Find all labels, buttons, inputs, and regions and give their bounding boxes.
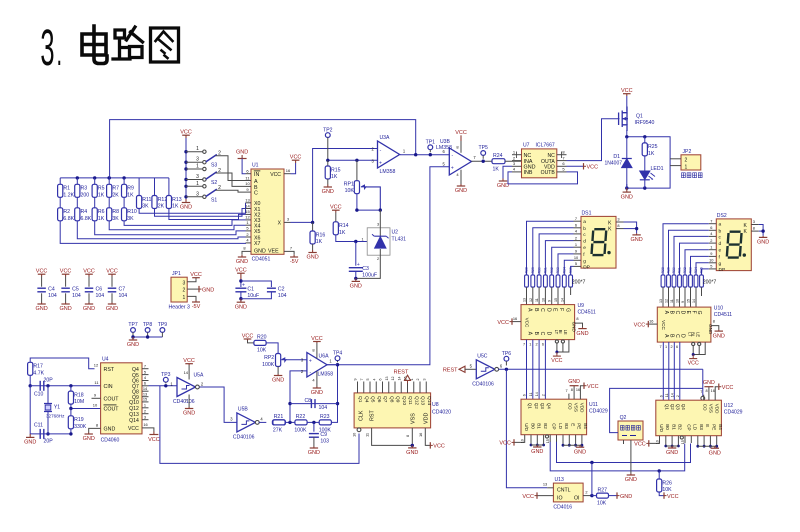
shunt regulator U2 TL431 — [367, 228, 390, 255]
svg-text:R13: R13 — [172, 197, 182, 203]
power VCC U12 UD — [648, 440, 650, 446]
pin 9 U4 COUT — [92, 397, 101, 399]
svg-text:8: 8 — [713, 319, 715, 324]
pin 3 DS1 — [616, 221, 624, 223]
wire Q2 signal — [610, 388, 703, 432]
svg-text:R34: R34 — [694, 267, 698, 273]
wire REST to U5C — [465, 368, 477, 370]
pin 5 DS2 — [709, 268, 717, 270]
svg-text:GND: GND — [406, 450, 418, 456]
transistor Q1 IRF9540 — [619, 107, 628, 132]
svg-text:104: 104 — [48, 293, 57, 299]
svg-text:8: 8 — [576, 316, 578, 321]
svg-text:LM358: LM358 — [380, 169, 396, 175]
svg-text:13: 13 — [659, 299, 663, 303]
svg-text:U4: U4 — [102, 356, 109, 362]
svg-text:R27: R27 — [598, 487, 608, 493]
ground GND C6 — [88, 303, 90, 305]
ground GND C1 — [240, 299, 242, 303]
svg-text:R20: R20 — [257, 335, 267, 341]
resistor R25 — [644, 137, 646, 143]
wire DS2 staircase segment 6 — [696, 263, 709, 275]
wire DS1 staircase segment 1 — [533, 228, 574, 275]
pin 16 U8 VDD — [425, 428, 430, 446]
svg-text:GND: GND — [620, 494, 632, 500]
wire DS2 staircase segment 2 — [674, 236, 709, 275]
svg-text:104: 104 — [119, 293, 128, 299]
resistor R15 — [327, 160, 329, 166]
display DS1 — [581, 216, 616, 268]
svg-text:2: 2 — [416, 379, 420, 381]
pin 1 DS2 — [709, 249, 717, 251]
pin 16 U9 VCC — [513, 321, 522, 323]
svg-text:GND: GND — [308, 450, 320, 456]
wire Q1 gate stub — [618, 118, 620, 120]
svg-text:1: 1 — [144, 403, 146, 408]
resistor R11 — [138, 178, 140, 196]
svg-text:200*7: 200*7 — [703, 280, 717, 286]
pin LT U10 — [692, 342, 695, 345]
svg-text:R1: R1 — [63, 186, 70, 192]
analog switch U13 CD4016 — [553, 483, 583, 502]
svg-text:+: + — [242, 283, 245, 289]
wire LT BI LE to VCC — [556, 343, 558, 352]
wire R24 to U7 INA — [505, 160, 522, 162]
svg-text:GND: GND — [35, 306, 47, 312]
svg-text:10: 10 — [676, 299, 680, 303]
pin 4 U4 Q6 — [142, 380, 149, 382]
svg-text:CD4511: CD4511 — [578, 310, 596, 316]
wire C1 C2 loop — [241, 281, 272, 287]
pin 5 U4 Q5 — [142, 374, 149, 376]
svg-text:Q8: Q8 — [388, 396, 394, 403]
wire CIN row — [30, 385, 100, 387]
svg-text:OUTB: OUTB — [541, 170, 556, 176]
decoder U9 CD4511 — [521, 305, 575, 340]
svg-text:7: 7 — [575, 216, 577, 221]
svg-text:DP: DP — [719, 267, 726, 273]
svg-text:CNTL: CNTL — [557, 488, 571, 494]
wire U1 X output to U3A pin2 — [291, 149, 378, 223]
svg-text:D: D — [680, 311, 686, 315]
svg-text:Q4: Q4 — [363, 396, 369, 403]
svg-text:16: 16 — [711, 389, 715, 393]
svg-text:10M: 10M — [74, 399, 84, 405]
wire array2 DP stub — [701, 287, 703, 296]
pin BI U10 — [698, 342, 701, 345]
wire U10 input 2 to U12 — [673, 342, 675, 400]
svg-text:E: E — [705, 424, 710, 427]
svg-text:B2: B2 — [543, 423, 548, 429]
svg-text:CD4051: CD4051 — [252, 256, 271, 262]
svg-text:C5: C5 — [72, 287, 79, 293]
pin 2 JP2 — [670, 158, 681, 160]
svg-text:VCC: VCC — [587, 384, 599, 390]
svg-text:20P: 20P — [44, 439, 54, 445]
wire DS2 staircase segment 7 — [702, 269, 709, 275]
wire C11 row — [30, 386, 71, 434]
resistor network RB6 — [694, 275, 698, 287]
svg-text:Q9: Q9 — [395, 396, 401, 403]
ground GND U3B pin4 — [460, 170, 462, 184]
svg-text:GND: GND — [306, 255, 318, 261]
title char lu — [113, 27, 143, 59]
wire array to U10 pin 15 — [690, 287, 692, 307]
resistor R12 — [154, 178, 156, 196]
svg-text:6: 6 — [144, 381, 146, 386]
svg-text:GND: GND — [104, 427, 116, 433]
svg-text:R28: R28 — [661, 267, 665, 273]
svg-text:R5: R5 — [98, 186, 105, 192]
svg-text:E: E — [570, 423, 575, 426]
pin U8 Q4 — [363, 382, 365, 393]
svg-text:R33: R33 — [556, 267, 560, 273]
wire array to U10 pin 12 — [668, 287, 670, 307]
svg-text:VDD: VDD — [580, 403, 585, 413]
pin 9 U1 — [246, 191, 252, 193]
svg-text:8: 8 — [753, 226, 755, 231]
svg-text:R32: R32 — [550, 267, 554, 273]
svg-text:Q11: Q11 — [407, 396, 413, 405]
binary counter U8 CD4020 — [354, 393, 431, 428]
svg-text:VCC: VCC — [499, 441, 511, 447]
svg-text:DS2: DS2 — [717, 213, 727, 219]
svg-text:CD4511: CD4511 — [714, 312, 732, 318]
pin 16 U11 VDD — [580, 386, 583, 400]
svg-text:C11: C11 — [34, 423, 43, 429]
svg-text:13: 13 — [543, 482, 547, 487]
pin 10 U12 UD — [649, 436, 659, 444]
svg-text:d: d — [719, 241, 722, 247]
svg-text:GND: GND — [183, 411, 195, 417]
ground GND U1 — [241, 255, 243, 257]
resistor R1 — [59, 178, 61, 185]
svg-text:16: 16 — [513, 316, 517, 321]
pin 3 U7 — [512, 165, 522, 167]
wire DS1 staircase segment 7 — [571, 266, 574, 275]
wire U5B out to R21 — [259, 421, 266, 423]
power VCC U11 UD — [513, 439, 515, 445]
svg-text:CD4020: CD4020 — [432, 410, 451, 416]
svg-text:B1: B1 — [537, 423, 542, 429]
svg-text:COUT: COUT — [104, 397, 120, 403]
ground GND motor node — [626, 188, 628, 192]
resistor R24 — [492, 159, 505, 164]
svg-text:6: 6 — [710, 225, 712, 230]
svg-text:U8: U8 — [432, 402, 439, 408]
resistor network RA6 — [562, 275, 566, 287]
svg-text:10K: 10K — [345, 188, 355, 194]
pin U8 Q7 — [382, 382, 384, 393]
pin 5 DS1 — [574, 265, 582, 267]
svg-text:GND: GND — [236, 259, 248, 265]
svg-text:C4: C4 — [48, 287, 55, 293]
svg-text:7: 7 — [523, 343, 525, 347]
svg-text:3: 3 — [144, 414, 146, 419]
svg-text:U/D: U/D — [659, 424, 664, 433]
svg-text:1: 1 — [575, 242, 577, 247]
pin 8 U4 GND — [89, 428, 101, 432]
svg-text:R18: R18 — [74, 392, 84, 398]
pin U8 Q9 — [394, 382, 396, 393]
pin PE U12 bubble — [680, 436, 683, 439]
svg-text:5: 5 — [575, 261, 577, 266]
capacitor C11 — [39, 429, 41, 439]
wire U3A output to U3B pin6 — [400, 154, 449, 156]
svg-text:8: 8 — [571, 388, 573, 392]
svg-text:g: g — [719, 262, 722, 267]
wire X0 from R11 — [139, 203, 245, 214]
ground GND DS1 — [636, 233, 638, 235]
svg-text:3: 3 — [196, 191, 199, 197]
connector JP2 — [681, 155, 701, 170]
svg-text:U6A: U6A — [319, 354, 330, 360]
wire resistor bank top bus — [60, 177, 169, 179]
pin 11 U1 — [246, 180, 252, 182]
svg-text:12: 12 — [529, 298, 533, 302]
svg-text:GND: GND — [272, 378, 284, 384]
svg-text:GND: GND — [621, 194, 633, 200]
ground GND R15 — [327, 179, 329, 185]
resistor network RB1 — [667, 275, 671, 287]
svg-text:S1: S1 — [211, 197, 217, 203]
pin 7 DS2 — [709, 223, 717, 225]
wire Y1 to C11 — [47, 412, 49, 434]
svg-text:B2: B2 — [678, 424, 683, 430]
svg-text:9: 9 — [354, 379, 358, 381]
pin 5 U1 — [246, 230, 252, 232]
resistor network RA7 — [569, 275, 573, 287]
svg-text:1N4007: 1N4007 — [604, 161, 622, 167]
wire S2 throw to U1 B — [216, 173, 246, 186]
svg-text:RST: RST — [104, 367, 115, 373]
svg-text:104: 104 — [278, 293, 287, 299]
svg-text:Q10: Q10 — [401, 396, 407, 405]
svg-text:Header 3: Header 3 — [169, 305, 190, 311]
svg-text:9: 9 — [710, 251, 712, 256]
ground GND U12 right — [714, 446, 716, 448]
pin 10 U8 CLK — [357, 428, 361, 432]
ground GND RP2 — [277, 374, 279, 376]
svg-text:GND: GND — [713, 333, 725, 339]
wire X4 from R8 divider — [109, 221, 245, 230]
svg-text:5: 5 — [366, 379, 370, 381]
wire X5 from R6 divider — [95, 221, 246, 235]
crystal Y1 — [47, 386, 49, 404]
wire R17 bottom — [29, 375, 31, 386]
svg-text:GND: GND — [574, 449, 586, 455]
ground GND switch bus — [185, 199, 187, 203]
svg-text:e: e — [719, 249, 722, 254]
pin 15 U1 — [246, 213, 252, 215]
svg-text:2: 2 — [377, 257, 379, 261]
svg-text:1: 1 — [529, 343, 531, 347]
svg-text:10: 10 — [245, 181, 250, 186]
resistor R17 — [30, 358, 94, 369]
wire upper clock bus U11 to U12 — [557, 442, 691, 463]
svg-text:8: 8 — [706, 389, 708, 393]
svg-text:BI: BI — [558, 330, 563, 334]
svg-text:VCC: VCC — [433, 444, 445, 450]
svg-text:11: 11 — [529, 392, 533, 396]
svg-text:C1: C1 — [247, 287, 254, 293]
svg-text:C: C — [674, 311, 680, 315]
wire S3 throw to U1 A — [216, 156, 246, 181]
svg-text:ICL7667: ICL7667 — [536, 142, 555, 148]
pin 2 U4 Q13 — [142, 413, 149, 415]
ground GND U12 VSS — [704, 386, 713, 388]
wire R20 to RP2 — [266, 343, 278, 354]
pin 6 U1 — [246, 173, 252, 175]
svg-text:G: G — [696, 311, 702, 315]
svg-text:DS1: DS1 — [582, 210, 592, 216]
pin U8 Q11 — [407, 382, 409, 393]
svg-text:Q13: Q13 — [420, 396, 426, 405]
ground GND U11 right — [579, 445, 581, 447]
wire U7 INB to OUTB loop — [508, 172, 578, 184]
ground GND R27 — [609, 495, 617, 497]
svg-text:GND: GND — [709, 450, 721, 456]
title char dian — [82, 26, 107, 64]
svg-text:1K: 1K — [127, 192, 134, 198]
title char tu — [151, 28, 179, 62]
svg-text:X7: X7 — [254, 241, 261, 247]
pin 1 U13 IO — [537, 495, 553, 497]
svg-text:11: 11 — [365, 433, 370, 437]
svg-text:14: 14 — [560, 298, 564, 302]
svg-text:VCC: VCC — [455, 130, 467, 136]
svg-text:Y1: Y1 — [54, 405, 60, 411]
pins B3 E PE U11 — [562, 435, 564, 446]
svg-text:7: 7 — [144, 363, 146, 368]
ground GND U7 — [502, 179, 504, 182]
svg-text:C: C — [674, 334, 680, 338]
svg-text:GND: GND — [630, 237, 642, 243]
svg-text:LE: LE — [563, 330, 568, 335]
ground GND U12 B inputs — [671, 446, 673, 448]
svg-text:8: 8 — [617, 223, 619, 228]
svg-text:+: + — [379, 160, 382, 166]
wire array to U9 pin 13 — [526, 287, 528, 305]
pin 7 U7 — [557, 160, 567, 162]
svg-text:3K: 3K — [112, 216, 119, 222]
svg-text:12: 12 — [245, 215, 250, 220]
svg-text:-5V: -5V — [192, 304, 201, 310]
led LED1 — [644, 156, 646, 171]
svg-text:104: 104 — [319, 405, 328, 411]
svg-text:VDD: VDD — [423, 413, 429, 424]
pin 16 U12 VDD — [715, 387, 718, 401]
svg-text:3: 3 — [753, 219, 755, 224]
svg-text:Q3: Q3 — [675, 404, 680, 411]
svg-text:U5A: U5A — [194, 373, 205, 379]
svg-text:B0: B0 — [665, 424, 670, 430]
pin 6 DS1 — [574, 227, 582, 229]
ground GND U6A — [316, 371, 318, 387]
wire switch common bus — [185, 138, 187, 199]
svg-text:U11: U11 — [589, 402, 598, 408]
ground GND U8 — [411, 445, 413, 448]
ground GND C3 — [355, 278, 357, 281]
svg-text:14: 14 — [184, 370, 189, 375]
svg-text:R31: R31 — [544, 267, 548, 273]
pin U8 Q14 — [425, 382, 427, 393]
wire Q2 gnd pin — [630, 440, 632, 474]
resistor R3 — [76, 178, 78, 185]
potentiometer RP2 — [276, 354, 281, 367]
power VCC U4 — [149, 434, 158, 436]
pin LD U11 — [556, 435, 558, 442]
wire U10 input 0 to U12 — [662, 342, 664, 400]
resistor network RA5 — [556, 275, 560, 287]
svg-text:GND: GND — [83, 306, 95, 312]
resistor network RB7 — [700, 275, 704, 287]
svg-text:1: 1 — [196, 181, 199, 187]
svg-text:R17: R17 — [33, 364, 43, 370]
svg-text:100K: 100K — [294, 427, 307, 433]
svg-text:7: 7 — [700, 390, 702, 394]
wire TL431 cathode down — [356, 249, 381, 278]
svg-text:103: 103 — [320, 438, 329, 444]
pin BI U9 — [561, 340, 564, 343]
svg-text:GND: GND — [322, 189, 334, 195]
svg-text:1K: 1K — [98, 216, 105, 222]
pin 10 DS1 — [574, 259, 582, 261]
resistor R19 — [70, 409, 72, 417]
resistor R9 — [123, 178, 125, 185]
svg-text:1: 1 — [685, 164, 688, 170]
wire DS1 staircase segment 2 — [539, 234, 573, 275]
svg-text:3: 3 — [196, 174, 199, 180]
wire U5A out to U5B in — [199, 387, 237, 422]
svg-text:R30: R30 — [537, 267, 541, 273]
resistor R4 — [76, 197, 78, 208]
svg-text:R25: R25 — [648, 144, 658, 150]
svg-text:C: C — [254, 191, 258, 197]
svg-text:R16: R16 — [316, 232, 326, 238]
svg-text:CIN: CIN — [104, 384, 113, 390]
inverter U5B CD40106 — [237, 413, 256, 432]
svg-text:6: 6 — [676, 345, 678, 349]
pin 16 U4 VCC — [142, 428, 154, 432]
svg-text:U1: U1 — [252, 163, 259, 169]
svg-text:3: 3 — [40, 19, 54, 76]
svg-text:S2: S2 — [211, 180, 217, 186]
svg-text:10: 10 — [656, 440, 660, 444]
svg-text:VDD: VDD — [714, 404, 719, 414]
svg-text:C7: C7 — [119, 287, 126, 293]
svg-text:GND: GND — [236, 149, 248, 155]
pin CO U12 — [703, 395, 705, 401]
svg-text:DP: DP — [583, 264, 590, 270]
wire U9 input 3 to U11 — [544, 340, 546, 400]
svg-text:CLK: CLK — [359, 410, 365, 421]
svg-text:CD40106: CD40106 — [472, 381, 494, 387]
svg-text:X: X — [278, 221, 282, 227]
wire DS2 staircase segment 1 — [669, 230, 709, 275]
pin 2 DS2 — [709, 242, 717, 244]
svg-text:LM358: LM358 — [318, 372, 334, 378]
power VCC U8 — [429, 442, 431, 448]
svg-text:VCC: VCC — [497, 320, 509, 326]
svg-text:100K: 100K — [319, 427, 332, 433]
wire array DP stub — [570, 287, 572, 295]
svg-text:16: 16 — [649, 319, 653, 324]
svg-text:3: 3 — [377, 222, 379, 226]
svg-text:10: 10 — [541, 298, 545, 302]
svg-text:6.8K: 6.8K — [81, 216, 92, 222]
pin U8 Q10 — [400, 382, 402, 393]
